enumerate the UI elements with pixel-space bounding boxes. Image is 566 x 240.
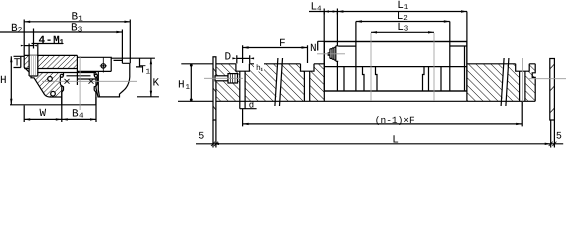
rail hatched right segment — [467, 64, 503, 102]
seal screw circle right — [94, 74, 97, 77]
block section hatched lower leg — [34, 73, 62, 98]
L4 ticks — [324, 9, 337, 15]
svg-text:D: D — [225, 52, 232, 64]
carriage block side view body — [324, 42, 467, 92]
H1 bottom extension — [178, 100, 213, 102]
svg-text:F: F — [279, 38, 286, 50]
cross tick right — [89, 79, 94, 84]
svg-text:B: B — [72, 109, 79, 121]
svg-text:4-M: 4-M — [39, 35, 61, 47]
rail top band lower line — [31, 72, 96, 74]
svg-text:1: 1 — [60, 39, 65, 47]
screw centerline right — [528, 78, 566, 80]
L2 dimension line — [356, 21, 450, 23]
grease nipple — [328, 46, 339, 62]
rail bottom under block — [324, 100, 467, 102]
W/B4 dimension line — [24, 118, 96, 120]
hole1 outline — [236, 64, 250, 102]
5 ticks right — [549, 142, 557, 146]
N bracket — [318, 41, 325, 50]
K bottom extension — [137, 96, 159, 98]
svg-text:5: 5 — [198, 132, 204, 143]
svg-text:2: 2 — [403, 14, 408, 23]
rail bottom edge — [216, 100, 535, 102]
hole2 counterbore white — [301, 63, 315, 71]
centerline horizontal raceway — [42, 80, 137, 82]
break lines left — [275, 58, 283, 106]
block left edge with chamfer — [24, 55, 50, 97]
seal screw circle left — [60, 74, 63, 77]
hole2 outline — [301, 64, 315, 102]
svg-text:d: d — [249, 101, 254, 111]
svg-text:T: T — [14, 58, 21, 70]
block seams jogged — [363, 67, 425, 91]
block right face — [466, 12, 468, 102]
(n-1)xF dimension line — [243, 123, 523, 125]
svg-text:4: 4 — [317, 6, 322, 14]
section parting line — [76, 55, 78, 85]
rail top edge — [216, 63, 535, 65]
svg-text:K: K — [153, 78, 160, 90]
tapped hole M1 walls — [29, 44, 38, 77]
B3 right extension — [121, 30, 123, 64]
block section hatched upper band — [24, 55, 77, 74]
cross tick left — [65, 79, 70, 84]
right end bar — [550, 59, 555, 121]
svg-text:H: H — [178, 80, 185, 92]
svg-text:4: 4 — [79, 113, 84, 121]
D dimension — [237, 57, 250, 59]
W/B4 extension lines — [24, 85, 96, 122]
L4/L1 dimension line — [309, 11, 467, 13]
hole3 right counterbore white — [516, 63, 530, 71]
svg-text:L: L — [392, 135, 399, 147]
centerline vertical rail — [79, 56, 81, 110]
h label — [254, 63, 264, 72]
H1 top extension — [181, 63, 213, 65]
hatch band bottom edge — [24, 68, 77, 70]
L extensions / bar edges extended — [213, 120, 554, 148]
block seams partial — [344, 67, 441, 91]
block bottom edge — [324, 90, 467, 92]
end screw circle with crosshair — [101, 64, 105, 68]
block mid horizontal line — [324, 66, 467, 68]
leg inner second line — [98, 71, 99, 97]
left end bar — [213, 57, 216, 120]
svg-text:N: N — [310, 43, 317, 55]
L4 extension — [323, 12, 325, 42]
end plate contour lines right half — [77, 71, 111, 79]
d leader — [240, 101, 257, 108]
B1 dimension line — [24, 21, 130, 23]
B2 small dimension bracket — [24, 45, 33, 47]
rail outline front left side — [60, 73, 63, 105]
L3 extension gray through block — [371, 33, 434, 101]
T dimension — [14, 56, 25, 67]
K top extension — [111, 57, 155, 59]
K dimension line — [150, 58, 152, 97]
hole center tick — [33, 29, 35, 49]
B2/B3 dimension line — [0, 31, 122, 33]
H dimension line — [10, 56, 12, 105]
hole1 counterbore white — [236, 63, 250, 71]
svg-text:(n-1)×F: (n-1)×F — [375, 115, 415, 126]
block top edge — [324, 41, 467, 43]
ball upper — [48, 77, 53, 82]
end box bottom right — [450, 45, 467, 47]
block outline top — [24, 55, 130, 71]
rail hatched left segment — [216, 64, 276, 102]
L1 arrows — [337, 10, 343, 12]
4-M1 leader underline — [32, 43, 64, 45]
svg-text:H: H — [0, 75, 7, 87]
L dimension line — [196, 143, 563, 145]
ball lower — [51, 91, 56, 96]
rail outline front right side — [94, 73, 97, 105]
svg-text:2: 2 — [18, 26, 23, 35]
left leg bottom edge — [50, 96, 62, 98]
svg-text:1: 1 — [78, 15, 83, 23]
svg-text:3: 3 — [404, 25, 409, 34]
H1 dimension line — [190, 64, 192, 102]
5 ticks left — [211, 142, 218, 146]
F extensions — [243, 45, 308, 63]
rail right end face with notch — [532, 64, 535, 102]
(n-1)xF extensions — [243, 101, 523, 126]
svg-text:1: 1 — [146, 68, 151, 76]
hole3 outline — [516, 64, 530, 102]
screw centerline — [204, 77, 243, 79]
end screw left — [215, 76, 228, 81]
break lines right — [501, 58, 509, 106]
thread lines — [31, 56, 35, 76]
rail top chamfer line — [67, 75, 91, 77]
bottom baseline — [10, 104, 96, 106]
end box bottom left — [337, 45, 356, 47]
svg-text:3: 3 — [78, 25, 83, 34]
block seams verticals — [337, 12, 464, 92]
block left face — [323, 42, 325, 102]
F dimension line — [243, 47, 308, 49]
B1 extension lines — [24, 20, 130, 64]
tapped hole M1 white — [30, 55, 38, 76]
L3 dimension line — [371, 31, 434, 33]
block right edge with leg — [96, 63, 130, 97]
T1 dimension — [136, 58, 143, 67]
svg-text:1: 1 — [404, 4, 409, 12]
svg-text:5: 5 — [556, 132, 562, 143]
svg-text:1: 1 — [186, 84, 191, 92]
svg-text:W: W — [40, 108, 47, 120]
hole centerline right — [521, 58, 523, 106]
